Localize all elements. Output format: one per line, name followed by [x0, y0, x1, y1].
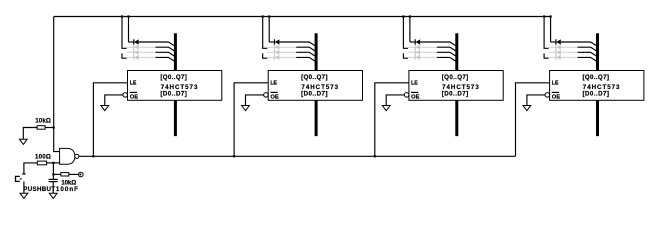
wire ghost row2 block 4: [549, 46, 578, 48]
wire diode row1 to bus block 3: [420, 42, 456, 46]
bus data bus block 1: [174, 33, 177, 136]
svg-text:[D0..D7]: [D0..D7]: [442, 91, 468, 98]
svg-text:[Q0..Q7]: [Q0..Q7]: [301, 74, 327, 81]
wire rail drop B block 1: [128, 17, 130, 43]
bus data bus block 2: [315, 33, 318, 136]
pin OE overline U4: [552, 91, 559, 93]
wire ghost row3 block 2: [267, 51, 296, 53]
wire row3 to bus block 1: [156, 52, 175, 56]
svg-text:[D0..D7]: [D0..D7]: [301, 91, 327, 98]
svg-text:PUSHBUT: PUSHBUT: [23, 186, 55, 193]
diode D4 (ghost): [134, 55, 139, 60]
diode D14 (ghost): [556, 45, 561, 50]
junction dot rail A block 1: [121, 15, 123, 17]
wire row2 to bus block 2: [296, 47, 315, 51]
diode D12 (ghost): [415, 55, 420, 60]
diode D13: [556, 39, 561, 44]
wire node to capacitor: [52, 163, 54, 179]
ground OE block 3: [382, 106, 390, 111]
svg-text:OE: OE: [130, 95, 139, 101]
wire row2 to bus block 4: [578, 47, 597, 51]
junction dot rail B block 3: [409, 15, 411, 17]
pin OE overline U3: [411, 91, 418, 93]
diode D1: [134, 39, 139, 44]
wire hook block 3: [403, 53, 408, 58]
pushbutton SW1 top tick: [22, 173, 26, 175]
svg-text:[Q0..Q7]: [Q0..Q7]: [160, 74, 186, 81]
wire ghost row3 block 3: [408, 51, 437, 53]
svg-text:OE: OE: [552, 95, 561, 101]
wire rail drop A block 2: [263, 17, 268, 49]
wire diode row1 left block 3: [410, 41, 415, 43]
wire LE net riser block 4: [516, 83, 550, 157]
port terminal: [79, 172, 84, 177]
svg-text:OE: OE: [411, 95, 420, 101]
wire hook block 1: [122, 53, 127, 58]
svg-text:LE: LE: [130, 80, 137, 86]
pushbutton SW1 plunger tick: [20, 178, 22, 180]
wire R1 right: [45, 127, 54, 129]
wire SW1 to ground: [23, 181, 25, 193]
wire rail drop A block 4: [544, 17, 549, 49]
wire OE to ground block 3: [386, 95, 404, 106]
junction dot rail B block 4: [550, 15, 552, 17]
diode D5: [275, 39, 280, 44]
ground SW1: [20, 193, 28, 198]
wire hook block 4: [544, 53, 549, 58]
wire diode row1 left block 4: [551, 41, 556, 43]
svg-text:LE: LE: [552, 80, 559, 86]
wire left vertical from rail to gate input: [54, 17, 60, 152]
wire ghost row3 block 4: [549, 51, 578, 53]
wire row3 to bus block 2: [296, 52, 315, 56]
wire R2 left to switch: [24, 163, 37, 174]
wire ghost row2 block 1: [127, 46, 156, 48]
wire rail drop A block 3: [403, 17, 408, 49]
svg-text:100Ω: 100Ω: [35, 154, 51, 161]
diode D16 (ghost): [556, 55, 561, 60]
junction dot R1: [53, 126, 55, 128]
pin bubble OE U3: [404, 93, 409, 98]
wire row2 to bus block 3: [437, 47, 456, 51]
svg-text:LE: LE: [411, 80, 418, 86]
wire rail drop B block 4: [550, 17, 552, 43]
resistor R2: [37, 161, 46, 165]
junction dot rail A block 4: [543, 15, 545, 17]
NAND gate U1 body: [60, 148, 75, 164]
wire ghost row4 block 4: [549, 56, 578, 58]
junction dot R3 branch: [52, 173, 54, 175]
capacitor C1: [49, 179, 58, 181]
resistor R3: [61, 173, 69, 176]
svg-text:100nF: 100nF: [56, 186, 78, 193]
U1 output bubble: [75, 154, 79, 158]
latch U4 74HCT573 body: [550, 71, 644, 101]
wire NAND output horizontal LE net: [79, 155, 516, 157]
ground C1: [49, 193, 57, 198]
svg-text:[D0..D7]: [D0..D7]: [583, 91, 609, 98]
pin bubble OE U1: [123, 93, 128, 98]
wire row4 to bus block 3: [437, 57, 456, 61]
ground OE block 1: [101, 106, 109, 111]
wire diode row1 to bus block 4: [561, 42, 597, 46]
svg-text:[Q0..Q7]: [Q0..Q7]: [583, 74, 609, 81]
wire LE net riser block 3: [375, 83, 409, 157]
wire row3 to bus block 3: [437, 52, 456, 56]
wire ghost row4 block 1: [127, 56, 156, 58]
junction dot R2 node: [52, 162, 54, 164]
pushbutton SW1 actuator: [16, 176, 20, 181]
wire rail drop B block 3: [409, 17, 411, 43]
diode D6 (ghost): [275, 45, 280, 50]
wire rail drop B block 2: [268, 17, 270, 43]
wire diode row1 to bus block 2: [279, 42, 315, 46]
wire VCC top rail: [54, 16, 551, 18]
pin bubble OE U4: [545, 93, 550, 98]
diode D15 (ghost): [556, 50, 561, 55]
svg-text:[Q0..Q7]: [Q0..Q7]: [442, 74, 468, 81]
ground R1: [19, 139, 27, 144]
ground OE block 4: [523, 106, 531, 111]
wire R2 right to gate: [47, 162, 60, 164]
svg-text:LE: LE: [270, 80, 277, 86]
diode D3 (ghost): [134, 50, 139, 55]
wire LE net riser block 1: [93, 83, 127, 157]
wire row4 to bus block 1: [156, 57, 175, 61]
pin OE overline U2: [270, 91, 277, 93]
diode D8 (ghost): [275, 55, 280, 60]
wire ghost row4 block 2: [267, 56, 296, 58]
wire ghost row3 block 1: [127, 51, 156, 53]
wire LE net riser block 2: [234, 83, 268, 157]
wire diode row1 left block 1: [129, 41, 134, 43]
wire OE to ground block 1: [105, 95, 123, 106]
svg-text:10kΩ: 10kΩ: [35, 117, 51, 124]
junction dot LE net block 3: [374, 155, 376, 157]
wire C1 to ground: [52, 182, 54, 194]
wire OE to ground block 4: [527, 95, 545, 106]
diode D9: [415, 39, 420, 44]
wire R1 left: [23, 128, 37, 140]
bus data bus block 4: [596, 33, 599, 136]
svg-text:[D0..D7]: [D0..D7]: [160, 91, 186, 98]
wire diode row1 left block 2: [269, 41, 274, 43]
diode D7 (ghost): [275, 50, 280, 55]
svg-text:OE: OE: [270, 95, 279, 101]
ground OE block 2: [242, 106, 250, 111]
diode D10 (ghost): [415, 45, 420, 50]
wire R3 right: [69, 173, 79, 175]
wire ghost row4 block 3: [408, 56, 437, 58]
wire ghost row2 block 3: [408, 46, 437, 48]
junction dot rail B block 1: [127, 15, 129, 17]
diode D11 (ghost): [415, 50, 420, 55]
junction dot LE net block 2: [233, 155, 235, 157]
junction dot rail A block 3: [402, 15, 404, 17]
latch U3 74HCT573 body: [409, 71, 503, 101]
wire rail drop A block 1: [122, 17, 127, 49]
wire row3 to bus block 4: [578, 52, 597, 56]
wire ghost row2 block 2: [267, 46, 296, 48]
diode D2 (ghost): [134, 45, 139, 50]
bus data bus block 3: [455, 33, 458, 136]
wire row2 to bus block 1: [156, 47, 175, 51]
junction dot rail A block 2: [262, 15, 264, 17]
wire R3 left: [53, 173, 61, 175]
wire diode row1 to bus block 1: [139, 42, 175, 46]
wire row4 to bus block 4: [578, 57, 597, 61]
wire OE to ground block 2: [246, 95, 264, 106]
junction dot rail B block 2: [268, 15, 270, 17]
resistor R1: [37, 126, 45, 130]
latch U2 74HCT573 body: [268, 71, 362, 101]
latch U1 74HCT573 body: [128, 71, 222, 101]
pin OE overline U1: [130, 91, 137, 93]
wire row4 to bus block 2: [296, 57, 315, 61]
wire hook block 2: [263, 53, 268, 58]
pin bubble OE U2: [264, 93, 269, 98]
junction dot LE net block 1: [92, 155, 94, 157]
